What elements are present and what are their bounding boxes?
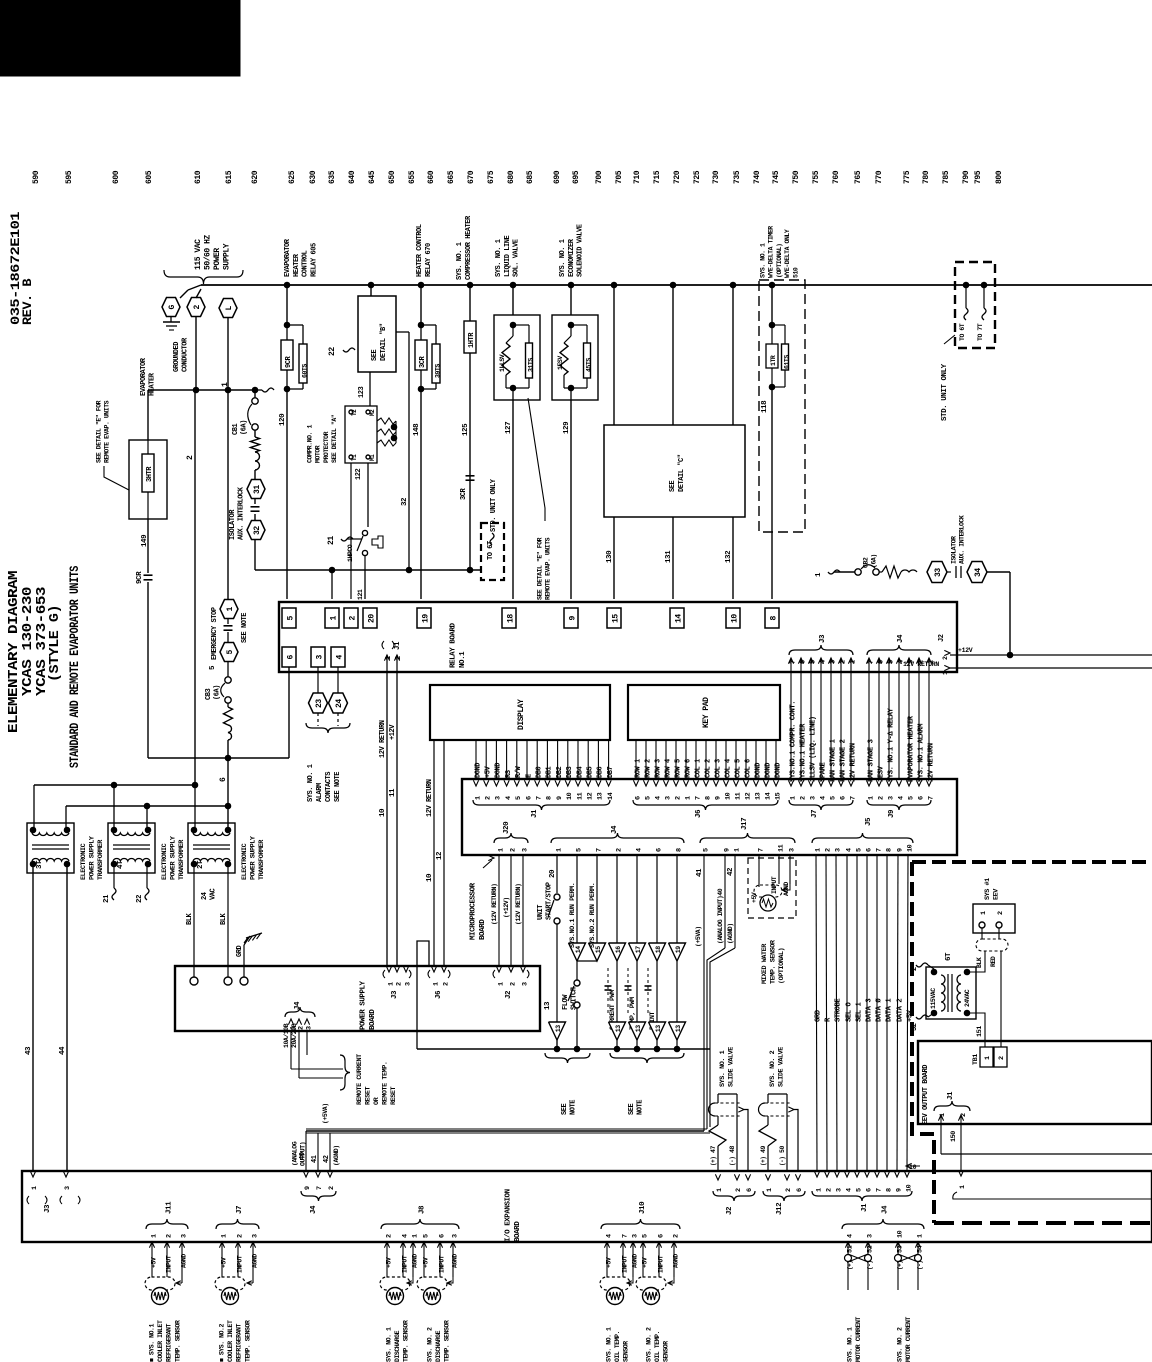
svg-text:J6: J6	[435, 990, 443, 999]
svg-text:13: 13	[655, 1025, 662, 1032]
svg-text:13: 13	[635, 1025, 642, 1032]
svg-text:■ SYS. NO.1: ■ SYS. NO.1	[149, 1323, 156, 1362]
svg-text:J17: J17	[741, 818, 749, 830]
svg-text:COL 1: COL 1	[694, 759, 702, 778]
svg-text:7: 7	[694, 796, 702, 800]
svg-text:(12V RETURN): (12V RETURN)	[515, 884, 522, 925]
svg-text:VAC: VAC	[209, 888, 217, 900]
svg-text:8: 8	[885, 1188, 893, 1192]
svg-text:61TS: 61TS	[784, 355, 791, 369]
svg-text:REMOTE TEMP.: REMOTE TEMP.	[381, 1061, 389, 1105]
svg-text:710: 710	[633, 170, 642, 184]
svg-text:8: 8	[885, 848, 893, 852]
svg-text:3: 3	[788, 848, 796, 852]
svg-text:149: 149	[141, 534, 149, 547]
svg-text:7: 7	[928, 796, 936, 800]
svg-text:31TS: 31TS	[528, 358, 535, 372]
svg-text:7: 7	[536, 796, 544, 800]
svg-text:129: 129	[563, 421, 571, 434]
svg-text:J4: J4	[310, 1205, 318, 1214]
svg-text:22: 22	[136, 894, 144, 903]
svg-text:10: 10	[896, 1230, 904, 1238]
svg-text:TRANSFORMER: TRANSFORMER	[178, 839, 186, 880]
wire 150	[940, 1124, 942, 1154]
svg-text:20: 20	[549, 869, 557, 878]
svg-text:DB4: DB4	[576, 766, 584, 778]
svg-text:DETAIL "C": DETAIL "C"	[678, 454, 686, 492]
I/O EXPANSION BOARD outline	[22, 1171, 1152, 1242]
svg-text:12V RETURN: 12V RETURN	[379, 720, 387, 758]
svg-text:(-): (-)	[779, 1157, 786, 1166]
EEV cable dashed capsule	[976, 939, 1008, 951]
svg-text:9CR: 9CR	[136, 571, 144, 584]
svg-text:(+): (+)	[846, 1261, 853, 1270]
svg-text:670: 670	[467, 170, 476, 184]
svg-text:SYS. NO. 2: SYS. NO. 2	[427, 1327, 434, 1362]
svg-text:LIQUID LINE: LIQUID LINE	[504, 235, 512, 277]
svg-text:695: 695	[572, 170, 581, 184]
svg-text:SYS. NO.1 Y-Δ RELAY: SYS. NO.1 Y-Δ RELAY	[888, 707, 896, 782]
svg-text:+5V: +5V	[605, 1257, 612, 1268]
1LLSV solenoid with 31TS box	[510, 282, 516, 288]
motor protector heater resistors	[377, 418, 396, 424]
svg-text:10: 10	[724, 792, 732, 800]
svg-text:760: 760	[832, 170, 841, 184]
svg-text:720: 720	[673, 170, 682, 184]
svg-text:(OPTIONAL): (OPTIONAL)	[778, 948, 786, 984]
svg-text:790: 790	[962, 170, 971, 184]
svg-text:115 VAC: 115 VAC	[194, 239, 203, 270]
svg-text:POWER SUPPLY: POWER SUPPLY	[169, 835, 177, 880]
svg-text:POWER SUPPLY: POWER SUPPLY	[359, 980, 367, 1030]
svg-text:21: 21	[103, 894, 111, 903]
svg-text:RESET: RESET	[364, 1086, 372, 1105]
svg-text:1: 1	[497, 982, 505, 986]
svg-text:SEL O: SEL O	[845, 1002, 853, 1022]
svg-text:150: 150	[950, 1131, 958, 1142]
svg-text:4: 4	[898, 796, 906, 800]
svg-text:50: 50	[779, 1146, 786, 1153]
svg-text:+12V: +12V	[389, 724, 397, 740]
svg-text:151: 151	[976, 1026, 984, 1037]
svg-text:6: 6	[438, 1234, 446, 1238]
motor current CT 51 52	[847, 1242, 849, 1290]
slide valve 2 feedback resistor	[759, 1125, 776, 1146]
IO J3 connector top left	[30, 1171, 35, 1177]
svg-text:(+): (+)	[710, 1157, 717, 1166]
svg-text:(+12V): (+12V)	[503, 897, 510, 918]
IO J1 connector from J5	[814, 1171, 819, 1177]
relay board terminal squares row2	[282, 647, 296, 667]
svg-text:3: 3	[631, 1234, 639, 1238]
svg-text:31: 31	[253, 485, 262, 494]
svg-text:2: 2	[328, 1186, 336, 1190]
svg-text:5: 5	[422, 1234, 430, 1238]
svg-text:3: 3	[404, 982, 412, 986]
svg-text:COL 4: COL 4	[724, 759, 732, 778]
svg-text:RELAY 670: RELAY 670	[425, 243, 433, 277]
wires 130 131 132 to relay board	[613, 517, 615, 599]
svg-text:33: 33	[934, 568, 943, 577]
svg-text:(+5VA): (+5VA)	[322, 1103, 329, 1124]
svg-text:1: 1	[716, 1188, 724, 1192]
svg-text:10: 10	[906, 844, 914, 852]
wire 118 down to relay board 8	[771, 387, 773, 599]
svg-text:RESET: RESET	[390, 1086, 398, 1105]
flow switch	[576, 961, 578, 980]
wire 6 node to transformers	[225, 755, 231, 761]
svg-text:770: 770	[875, 170, 884, 184]
svg-text:SEE NOTE: SEE NOTE	[241, 613, 249, 643]
analog output wires 40 41 42	[305, 1131, 307, 1171]
svg-text:5: 5	[830, 796, 838, 800]
IO J8 discharge sensors	[381, 1219, 459, 1229]
IO J10 oil temp sensors	[601, 1219, 680, 1229]
svg-text:SEE DETAIL "E" FOR: SEE DETAIL "E" FOR	[96, 400, 103, 463]
SEE DETAIL C box	[611, 282, 617, 288]
node 2 hexagon	[187, 298, 205, 317]
svg-text:CONDUCTOR: CONDUCTOR	[181, 337, 189, 372]
svg-text:SYS. NO. 1: SYS. NO. 1	[307, 764, 315, 802]
svg-text:11: 11	[576, 792, 584, 800]
transformer 3T	[27, 823, 74, 873]
svg-text:8: 8	[546, 796, 554, 800]
svg-text:AUX. INTERLOCK: AUX. INTERLOCK	[959, 515, 966, 564]
svg-text:(12V RETURN): (12V RETURN)	[491, 884, 498, 925]
svg-text:1: 1	[868, 796, 876, 800]
svg-text:J12: J12	[776, 1202, 784, 1215]
RELAY BOARD NO.1 outline	[279, 602, 957, 672]
svg-text:+5V: +5V	[422, 1257, 429, 1268]
svg-text:1LLSV (LIQ. LINE): 1LLSV (LIQ. LINE)	[810, 716, 818, 782]
svg-text:127: 127	[505, 422, 513, 434]
node L hexagon	[219, 299, 237, 318]
svg-text:REMOTE EVAP. UNITS: REMOTE EVAP. UNITS	[104, 400, 111, 463]
svg-text:14: 14	[674, 614, 683, 623]
svg-text:ELECTRONIC: ELECTRONIC	[161, 843, 169, 880]
node G hexagon grounded terminal	[162, 298, 180, 317]
CB2 resistor horizontal	[882, 566, 901, 578]
svg-text:J1: J1	[861, 1203, 869, 1212]
TO 6T TO 7T dashed box std unit	[955, 262, 995, 348]
svg-text:620: 620	[251, 170, 260, 184]
svg-text:SYS. NO. 1: SYS. NO. 1	[719, 1050, 727, 1087]
svg-text:2: 2	[674, 796, 682, 800]
svg-text:COOLER INLET: COOLER INLET	[157, 1320, 164, 1362]
svg-text:E: E	[525, 774, 533, 778]
svg-text:NOTE: NOTE	[637, 1100, 645, 1115]
svg-text:RELAY 605: RELAY 605	[310, 243, 318, 277]
svg-text:12: 12	[436, 851, 444, 860]
svg-text:3: 3	[305, 1026, 313, 1030]
wire from detail B to motor protector	[369, 372, 371, 406]
svg-text:J4: J4	[611, 825, 619, 834]
svg-text:OIL TEMP.: OIL TEMP.	[654, 1331, 661, 1362]
svg-text:SLIDE VALVE: SLIDE VALVE	[777, 1047, 785, 1087]
svg-text:(+5VA): (+5VA)	[695, 926, 702, 947]
svg-text:34: 34	[974, 568, 983, 577]
1TR timer with 61TS	[769, 282, 775, 288]
svg-text:9: 9	[556, 796, 564, 800]
svg-text:645: 645	[368, 170, 377, 184]
svg-text:705: 705	[615, 170, 624, 184]
svg-text:48: 48	[729, 1146, 736, 1153]
svg-text:RS: RS	[505, 770, 513, 778]
svg-text:REFRIGERANT: REFRIGERANT	[166, 1323, 173, 1362]
svg-text:TB1: TB1	[972, 1054, 980, 1065]
svg-text:AGND: AGND	[672, 1254, 679, 1268]
svg-text:5: 5	[855, 1188, 863, 1192]
svg-text:3: 3	[315, 655, 324, 660]
J7 pin numbers on microprocessor	[788, 780, 793, 786]
hexagon 33	[927, 562, 947, 583]
svg-text:DATA 1: DATA 1	[885, 998, 893, 1022]
svg-text:17: 17	[635, 946, 642, 953]
CB3 resistor	[224, 707, 233, 725]
svg-text:I/O EXPANSION: I/O EXPANSION	[504, 1189, 512, 1242]
svg-text:1: 1	[226, 607, 235, 612]
svg-text:EVAPORATOR: EVAPORATOR	[284, 238, 292, 277]
svg-text:2: 2	[348, 616, 357, 621]
svg-text:13: 13	[555, 1025, 562, 1032]
svg-text:19: 19	[675, 946, 682, 953]
svg-text:COOLER INLET: COOLER INLET	[227, 1320, 234, 1362]
svg-text:18: 18	[655, 946, 662, 953]
svg-text:9: 9	[714, 796, 722, 800]
svg-text:SYS. NO.1 ALARM: SYS. NO.1 ALARM	[918, 724, 926, 782]
svg-text:2: 2	[395, 982, 403, 986]
svg-text:18: 18	[506, 614, 515, 623]
svg-text:GROUNDED: GROUNDED	[173, 342, 181, 372]
svg-text:G: G	[168, 305, 177, 310]
svg-text:DB6: DB6	[597, 766, 605, 778]
svg-text:1: 1	[411, 1234, 419, 1238]
svg-text:2T: 2T	[197, 860, 205, 869]
svg-text:4: 4	[505, 796, 513, 800]
svg-text:49: 49	[760, 1146, 767, 1153]
wire 120 down to relay board 5	[286, 389, 288, 599]
svg-text:DB0: DB0	[536, 766, 544, 778]
svg-text:(+): (+)	[896, 1261, 903, 1270]
svg-text:J2: J2	[505, 990, 513, 999]
svg-text:SEE: SEE	[628, 1103, 636, 1115]
primary rail y785	[34, 784, 195, 786]
svg-text:TEMP. SENSOR: TEMP. SENSOR	[444, 1320, 451, 1362]
svg-text:2: 2	[509, 848, 517, 852]
3CR contact on 1HTR wire	[466, 475, 475, 477]
svg-text:41: 41	[696, 868, 704, 877]
svg-text:122: 122	[355, 468, 363, 480]
svg-text:12V RETURN: 12V RETURN	[903, 661, 939, 668]
svg-text:STD. UNIT ONLY: STD. UNIT ONLY	[490, 478, 498, 532]
svg-text:EVAPORATOR: EVAPORATOR	[140, 357, 148, 396]
contact	[955, 566, 957, 578]
svg-text:EEV: EEV	[992, 888, 1000, 900]
svg-text:1: 1	[221, 382, 230, 387]
svg-text:J2: J2	[726, 1206, 734, 1215]
svg-text:J7: J7	[236, 1206, 244, 1214]
svg-text:(OPTIONAL): (OPTIONAL)	[776, 243, 783, 278]
svg-text:DGND: DGND	[474, 763, 482, 778]
svg-text:TEMP. SENSOR: TEMP. SENSOR	[244, 1320, 251, 1362]
relay board terminal squares row1	[282, 608, 296, 628]
svg-text:1: 1	[474, 796, 482, 800]
svg-text:STROBE: STROBE	[834, 998, 842, 1022]
svg-text:MOTOR CURRENT: MOTOR CURRENT	[905, 1317, 912, 1362]
svg-text:SLIDE VALVE: SLIDE VALVE	[727, 1047, 735, 1087]
svg-text:2: 2	[186, 455, 195, 460]
svg-text:785: 785	[942, 170, 951, 184]
svg-text:3: 3	[251, 1234, 259, 1238]
svg-text:16: 16	[615, 946, 622, 953]
svg-text:BLK: BLK	[186, 912, 194, 925]
svg-text:590: 590	[32, 170, 41, 184]
svg-text:630: 630	[309, 170, 318, 184]
svg-text:40: 40	[299, 1152, 307, 1160]
svg-text:DB2: DB2	[556, 766, 564, 778]
svg-text:BLK: BLK	[976, 957, 983, 968]
svg-text:3CR: 3CR	[419, 355, 427, 368]
svg-text:ROW 5: ROW 5	[674, 759, 682, 778]
J4 wire labels to microprocessor J9	[868, 672, 870, 779]
svg-text:8: 8	[704, 796, 712, 800]
svg-text:DB5: DB5	[587, 766, 595, 778]
svg-text:42: 42	[323, 1155, 331, 1163]
svg-text:ISOLATOR: ISOLATOR	[951, 536, 958, 564]
svg-text:(ANALOG INPUT)40: (ANALOG INPUT)40	[717, 888, 724, 944]
svg-text:T2: T2	[351, 409, 358, 416]
svg-text:HEATER CONTROL: HEATER CONTROL	[416, 224, 424, 277]
wire 121 to relay board	[331, 570, 333, 599]
1HPCO horn symbol	[372, 536, 383, 548]
svg-text:23: 23	[315, 699, 324, 708]
svg-text:SEE: SEE	[371, 349, 379, 361]
svg-text:11: 11	[389, 788, 397, 797]
svg-text:9CR: 9CR	[285, 355, 293, 368]
svg-text:800: 800	[995, 170, 1004, 184]
12V RETURN +12V wires to power supply J3	[386, 672, 388, 966]
svg-text:42: 42	[727, 867, 735, 876]
signal return line 13	[417, 1048, 710, 1050]
1LLSV coil symbol	[502, 343, 510, 375]
svg-text:(6A): (6A)	[871, 554, 878, 568]
svg-text:EEV OUTPUT BOARD: EEV OUTPUT BOARD	[922, 1065, 930, 1125]
svg-text:SEE NOTE: SEE NOTE	[334, 772, 342, 802]
svg-text:DB3: DB3	[566, 766, 574, 778]
svg-text:3: 3	[834, 848, 842, 852]
svg-text:1: 1	[942, 671, 949, 675]
hook continuation at 390	[262, 388, 274, 392]
svg-text:2: 2	[735, 1188, 743, 1192]
svg-text:SYS. NO. 1: SYS. NO. 1	[847, 1327, 854, 1362]
6T transformer 115VAC 24VAC	[926, 967, 976, 1019]
svg-text:TEMP. SENSOR: TEMP. SENSOR	[174, 1320, 181, 1362]
svg-text:735: 735	[733, 170, 742, 184]
svg-text:TRANSFORMER: TRANSFORMER	[258, 839, 266, 880]
svg-text:3: 3	[495, 796, 503, 800]
svg-text:COL 6: COL 6	[744, 759, 752, 778]
svg-text:32: 32	[911, 1023, 919, 1031]
svg-text:COL 5: COL 5	[734, 759, 742, 778]
relay 3CR with 39TS pair	[418, 282, 424, 288]
svg-text:2: 2	[825, 1188, 833, 1192]
svg-text:KEY PAD: KEY PAD	[702, 697, 711, 728]
svg-text:14: 14	[764, 792, 772, 800]
svg-text:6T: 6T	[945, 952, 953, 961]
svg-text:120: 120	[279, 413, 287, 426]
svg-text:BOARD: BOARD	[479, 919, 487, 940]
svg-text:J1: J1	[531, 809, 539, 818]
svg-text:605: 605	[145, 170, 154, 184]
svg-text:60TS: 60TS	[302, 364, 309, 378]
svg-text:DISPLAY: DISPLAY	[517, 699, 526, 730]
svg-text:RED: RED	[990, 956, 997, 967]
svg-text:595: 595	[65, 170, 74, 184]
svg-text:625: 625	[288, 170, 297, 184]
svg-text:54: 54	[916, 1245, 924, 1253]
4T secondary hooks 21 22	[113, 864, 115, 888]
svg-text:12: 12	[744, 792, 752, 800]
EEV OUTPUT BOARD outline	[918, 1041, 1152, 1124]
svg-text:L: L	[225, 306, 234, 311]
svg-text:3: 3	[664, 796, 672, 800]
svg-text:(6A): (6A)	[213, 685, 221, 700]
svg-text:2: 2	[800, 796, 808, 800]
CB3 6A circuit breaker	[225, 677, 231, 683]
svg-text:SEE DETAIL "E" FOR: SEE DETAIL "E" FOR	[537, 537, 544, 600]
svg-text:CONTACTS: CONTACTS	[325, 772, 333, 802]
svg-text:12V RETURN: 12V RETURN	[426, 779, 434, 817]
KEY PAD board box	[628, 685, 780, 740]
transformer 2T	[188, 823, 235, 873]
svg-text:DGND: DGND	[774, 763, 782, 778]
svg-text:6: 6	[918, 796, 926, 800]
svg-text:690: 690	[553, 170, 562, 184]
svg-text:(-): (-)	[729, 1157, 736, 1166]
svg-text:2: 2	[824, 848, 832, 852]
svg-text:BOARD: BOARD	[369, 1009, 377, 1030]
svg-text:SYS. NO. 2: SYS. NO. 2	[897, 1327, 904, 1362]
svg-text:6: 6	[286, 655, 295, 660]
input terminals	[190, 977, 198, 985]
svg-text:13: 13	[754, 792, 762, 800]
svg-text:(AGND): (AGND)	[727, 923, 734, 944]
svg-text:3T: 3T	[36, 860, 44, 869]
svg-text:1: 1	[329, 616, 338, 621]
svg-text:SENSOR: SENSOR	[663, 1341, 670, 1362]
svg-text:TEMP. SENSOR: TEMP. SENSOR	[403, 1320, 410, 1362]
svg-text:680: 680	[507, 170, 516, 184]
svg-text:2: 2	[236, 1234, 244, 1238]
svg-text:J6: J6	[695, 809, 703, 818]
svg-text:(6A): (6A)	[240, 420, 248, 435]
EEV board dash-dot boundary	[912, 860, 1152, 864]
svg-text:SYS. NO. 2: SYS. NO. 2	[646, 1327, 653, 1362]
svg-text:41: 41	[311, 1155, 319, 1163]
svg-text:ROW 1: ROW 1	[634, 759, 642, 778]
svg-text:1: 1	[766, 1188, 774, 1192]
IO J12 connector slide valve 2	[765, 1174, 770, 1180]
svg-text:UNIT: UNIT	[537, 905, 545, 920]
svg-text:SYS. NO. 1: SYS. NO. 1	[559, 239, 567, 277]
svg-text:4: 4	[845, 1188, 853, 1192]
svg-text:123: 123	[358, 386, 366, 398]
svg-text:START/STOP: START/STOP	[546, 882, 554, 920]
svg-text:INPUT: INPUT	[165, 1255, 172, 1273]
svg-text:745: 745	[772, 170, 781, 184]
svg-text:SYS. NO. 2: SYS. NO. 2	[769, 1050, 777, 1087]
svg-text:SYS. NO. 1: SYS. NO. 1	[495, 239, 503, 277]
